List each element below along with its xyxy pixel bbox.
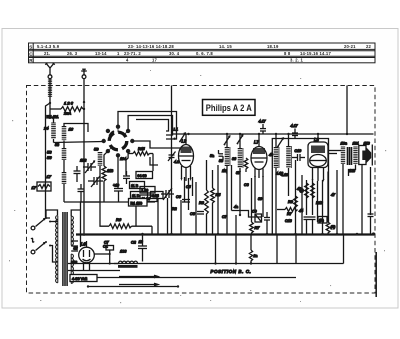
svg-text:22: 22 bbox=[366, 44, 372, 49]
svg-text:04 30: 04 30 bbox=[138, 174, 147, 178]
antenna symbol bbox=[45, 63, 55, 75]
tube socket pins bbox=[102, 125, 135, 158]
wire drops to bus bbox=[181, 160, 371, 235]
node bottom4 right bbox=[177, 285, 179, 287]
transformer core bbox=[63, 212, 67, 286]
wire drop from box 435 bbox=[157, 199, 159, 235]
capacitor bottom right 2 bbox=[310, 217, 316, 234]
svg-text:3. 2. 1: 3. 2. 1 bbox=[290, 58, 304, 63]
tube socket U1 outer arcs bbox=[109, 132, 127, 150]
svg-text:23-71. 2: 23-71. 2 bbox=[124, 51, 141, 56]
scan speckles bbox=[9, 70, 386, 303]
value box 435 bbox=[151, 192, 164, 199]
capacitor C9 bbox=[252, 210, 262, 223]
svg-text:1N: 1N bbox=[222, 169, 227, 173]
node dots on top bus bbox=[187, 133, 348, 135]
svg-text:C5: C5 bbox=[186, 185, 191, 189]
svg-text:113: 113 bbox=[364, 141, 371, 145]
svg-text:101: 101 bbox=[353, 141, 359, 145]
dashed chassis border bbox=[27, 86, 376, 294]
capacitor C14 below socket bbox=[114, 188, 123, 190]
tube leg arrowheads bbox=[181, 176, 325, 182]
coil L33 bbox=[62, 148, 67, 160]
wire step AVC bbox=[232, 211, 262, 218]
svg-text:104: 104 bbox=[120, 157, 126, 161]
value box 11D bbox=[131, 192, 148, 199]
wire vert below bus 4 bbox=[295, 235, 297, 264]
svg-text:C13: C13 bbox=[285, 219, 292, 223]
svg-text:26. 3: 26. 3 bbox=[67, 51, 78, 56]
resistor box 17 bbox=[37, 182, 51, 191]
wire left branch down bbox=[46, 103, 51, 218]
svg-text:36: 36 bbox=[232, 157, 236, 161]
wire step vertical bbox=[231, 165, 233, 211]
switch contact S2 bbox=[237, 135, 243, 144]
node antenna junction bbox=[49, 102, 51, 104]
transformer secondary top bbox=[71, 216, 73, 245]
switch contact S5 bbox=[179, 133, 185, 142]
svg-text:1 2 6: 1 2 6 bbox=[64, 101, 74, 106]
svg-text:14-15.16 14.17: 14-15.16 14.17 bbox=[300, 51, 331, 56]
svg-text:4-30 Volt: 4-30 Volt bbox=[72, 277, 88, 281]
svg-text:53: 53 bbox=[55, 143, 59, 147]
svg-text:23- 14-13-16 14-18.28: 23- 14-13-16 14-18.28 bbox=[128, 44, 174, 49]
capacitor left small 1 bbox=[74, 166, 81, 182]
wire L3 to transformer 2 bbox=[329, 153, 338, 155]
switch arm A bbox=[36, 217, 52, 227]
svg-text:21.: 21. bbox=[44, 51, 50, 56]
resistor R11 bbox=[311, 183, 315, 198]
svg-text:1 10: 1 10 bbox=[142, 189, 149, 193]
electrolytic blob bbox=[299, 188, 304, 193]
capacitor C17 on bus bbox=[260, 124, 266, 134]
antenna terminal bbox=[48, 75, 52, 79]
capacitor C17b on box top bbox=[291, 124, 299, 139]
wire vert below bus 3 bbox=[250, 234, 252, 250]
svg-text:2a: 2a bbox=[253, 254, 258, 258]
mains squiggle bbox=[31, 238, 34, 242]
output stage screen box bbox=[272, 139, 328, 235]
PARTS TABLE bbox=[29, 43, 376, 63]
svg-text:4.10: 4.10 bbox=[276, 172, 283, 176]
svg-text:14. 15: 14. 15 bbox=[219, 44, 232, 49]
wire nested loop 3 bbox=[136, 120, 169, 132]
resistor R5 bbox=[211, 188, 215, 208]
wire step zigzag R13 bbox=[277, 208, 298, 217]
inner box left corner bbox=[81, 202, 156, 247]
svg-text:56: 56 bbox=[47, 155, 52, 160]
svg-text:18.19: 18.19 bbox=[267, 44, 279, 49]
svg-text:4a: 4a bbox=[234, 205, 238, 209]
dial arrow 1 bbox=[119, 275, 158, 277]
capacitor C6 bbox=[176, 195, 190, 202]
wire jog to coil bbox=[50, 116, 54, 123]
svg-text:11 B: 11 B bbox=[131, 184, 139, 188]
svg-text:44: 44 bbox=[299, 209, 303, 213]
mains switch terminal A bbox=[31, 226, 35, 230]
svg-text:R2: R2 bbox=[172, 207, 177, 211]
wire bottom 4 bbox=[88, 286, 178, 288]
value box left2 bbox=[140, 195, 157, 202]
svg-text:30. 4: 30. 4 bbox=[169, 51, 180, 56]
wire switch A to transformer bbox=[50, 221, 58, 223]
svg-text:4.1: 4.1 bbox=[174, 160, 179, 164]
svg-text:KH 421: KH 421 bbox=[47, 115, 59, 119]
node nested loop joint bbox=[173, 138, 175, 140]
svg-text:C3: C3 bbox=[244, 183, 249, 187]
svg-text:4.17: 4.17 bbox=[291, 124, 299, 128]
wire left tall vertical bbox=[171, 86, 173, 235]
wire L16 bottom right bbox=[63, 160, 65, 172]
wire socket lower-right down bbox=[126, 151, 128, 175]
svg-text:C9: C9 bbox=[252, 210, 257, 214]
resistor R6 on AVC line bbox=[100, 202, 152, 235]
node bus right end bbox=[372, 232, 375, 235]
earth terminal symbol bbox=[81, 69, 87, 74]
wire bottom long 1 bbox=[68, 263, 344, 265]
wire top bus B+ bbox=[172, 133, 374, 135]
wire vert below bus 5 bbox=[276, 234, 278, 264]
wire main ground bus bbox=[76, 233, 374, 235]
resistor R9 bbox=[294, 196, 298, 207]
dial arrow 2 bbox=[119, 283, 158, 285]
battery box 4-30 VOLT bbox=[70, 275, 97, 282]
svg-text:+10: +10 bbox=[71, 261, 77, 265]
wire left y202 link bbox=[64, 201, 100, 203]
resistor right small bbox=[326, 222, 330, 234]
value box left1 bbox=[140, 187, 155, 194]
capacitor left small 2 bbox=[78, 184, 85, 202]
svg-text:17: 17 bbox=[47, 174, 52, 179]
svg-text:R12: R12 bbox=[316, 201, 323, 205]
svg-text:+10: +10 bbox=[113, 184, 119, 188]
wire socket to L2 grid bbox=[132, 141, 180, 148]
variable capacitor 113 bbox=[83, 161, 96, 173]
capacitor C8 bbox=[190, 212, 204, 217]
svg-text:13b: 13b bbox=[349, 169, 355, 173]
svg-text:(R): (R) bbox=[319, 219, 324, 223]
svg-text:Philips A 2 A: Philips A 2 A bbox=[206, 102, 252, 113]
output tube L3 bbox=[308, 134, 328, 181]
resistor S26 bbox=[61, 107, 83, 112]
wire link y109 bbox=[50, 108, 61, 110]
svg-text:8 8: 8 8 bbox=[284, 51, 291, 56]
transformer taps bbox=[71, 241, 78, 251]
wire vert below bus 1 bbox=[215, 234, 217, 264]
resistor R3 bbox=[205, 190, 209, 216]
svg-text:R1 150: R1 150 bbox=[131, 201, 143, 205]
output transformer 13a bbox=[341, 141, 356, 234]
coil L14 primary bbox=[51, 123, 56, 140]
svg-text:R15: R15 bbox=[138, 147, 145, 151]
svg-text:20-21: 20-21 bbox=[344, 44, 356, 49]
value box 11B bbox=[130, 182, 145, 189]
svg-text:13a: 13a bbox=[341, 141, 347, 145]
wire bottom 3 bbox=[96, 277, 296, 279]
wire drop from C4 trimmer bbox=[167, 198, 169, 234]
IF coil 2a bbox=[276, 134, 279, 234]
IF coil 1a bbox=[227, 134, 230, 234]
coil on antenna lead bbox=[48, 80, 52, 98]
wire nested loop 1 bbox=[118, 112, 177, 140]
value box R1 bbox=[129, 199, 148, 207]
wire socket pin stubs bbox=[110, 128, 127, 150]
wire primary top to switch bbox=[46, 210, 58, 218]
capacitor C15 bbox=[123, 171, 130, 184]
wire socket left feed bbox=[54, 142, 104, 143]
resistor R15 bbox=[129, 147, 154, 171]
wire R2 down bbox=[103, 181, 105, 202]
svg-text:53: 53 bbox=[47, 150, 52, 155]
wire antenna column down bbox=[63, 141, 65, 149]
IF coil 1b bbox=[240, 134, 243, 215]
mains switch terminal B bbox=[31, 250, 35, 254]
svg-text:L6: L6 bbox=[81, 242, 86, 247]
svg-text:17: 17 bbox=[32, 185, 37, 190]
speaker bbox=[353, 141, 373, 165]
wire L3 to transformer bbox=[329, 150, 342, 152]
capacitor C9b bbox=[264, 212, 270, 234]
rectifier tube L6 bbox=[79, 241, 95, 271]
switch arm B bbox=[36, 241, 52, 251]
svg-text:4.17: 4.17 bbox=[259, 120, 267, 124]
svg-text:L1: L1 bbox=[174, 127, 178, 132]
wire bottom 2 bbox=[68, 270, 120, 272]
earth terminal bbox=[82, 75, 86, 79]
tube L2 bbox=[179, 134, 194, 181]
wire antenna down bbox=[49, 79, 51, 119]
wire secondary top up bbox=[71, 210, 80, 216]
wire below L14 bbox=[53, 139, 55, 143]
node bottom4 left bbox=[87, 285, 89, 287]
transformer secondary bottom bbox=[71, 254, 73, 283]
value box right bbox=[318, 217, 327, 224]
svg-text:11B: 11B bbox=[107, 169, 114, 173]
svg-text:2mA: 2mA bbox=[63, 112, 72, 116]
wire antenna col into switch area bbox=[46, 217, 50, 219]
svg-text:112: 112 bbox=[80, 158, 87, 163]
wire osc coil down bbox=[99, 166, 101, 202]
svg-text:R6: R6 bbox=[116, 217, 122, 222]
border corner solid segment bbox=[375, 252, 377, 297]
capacitor C10 bbox=[292, 149, 305, 161]
wire socket bottom down bbox=[117, 155, 119, 188]
table letter column bbox=[32, 43, 34, 63]
svg-text:0. 6. 7.8: 0. 6. 7.8 bbox=[196, 51, 213, 56]
wire to earth lead bbox=[83, 108, 84, 110]
oscillator coil 59 bbox=[98, 152, 103, 166]
svg-text:59: 59 bbox=[94, 147, 99, 152]
switch contact S4 bbox=[277, 138, 283, 147]
inner box right corner bbox=[343, 234, 345, 264]
wire right tall vertical bbox=[346, 86, 348, 135]
switch contact S1 bbox=[224, 136, 230, 145]
svg-text:17: 17 bbox=[152, 58, 158, 63]
svg-text:POSITION B. C.: POSITION B. C. bbox=[211, 269, 252, 274]
svg-text:11 D: 11 D bbox=[132, 194, 140, 198]
resistor R7 bbox=[250, 222, 254, 234]
wire mid link bbox=[150, 157, 158, 165]
tube L7 bbox=[251, 134, 267, 178]
svg-text:30: 30 bbox=[258, 197, 262, 201]
svg-text:(R): (R) bbox=[331, 225, 336, 229]
svg-text:S: S bbox=[29, 44, 32, 49]
resistor R2 vertical bbox=[102, 166, 106, 181]
trimmer C4 bbox=[161, 188, 174, 200]
wire coil links bbox=[64, 124, 88, 133]
table frame bbox=[29, 43, 376, 63]
trimmer capacitor S18 bbox=[88, 176, 103, 187]
socket key notch bbox=[110, 131, 115, 136]
capacitor C16 right bbox=[368, 214, 374, 234]
coil L17 lower bbox=[62, 172, 67, 184]
coil L16 secondary bbox=[62, 126, 67, 141]
resistor box R8 bbox=[94, 241, 113, 265]
resistor mid small bbox=[244, 158, 248, 172]
table row lines bbox=[29, 48, 376, 50]
wire earth down bbox=[83, 79, 85, 235]
svg-text:C10: C10 bbox=[295, 149, 302, 153]
svg-text:133: 133 bbox=[120, 250, 127, 254]
svg-text:5a: 5a bbox=[210, 154, 214, 158]
wire vert below bus 2 bbox=[235, 215, 237, 264]
power transformer T1 primary bbox=[56, 216, 58, 283]
IF coil 2b bbox=[289, 134, 292, 196]
wire nested loop 2 bbox=[128, 116, 172, 136]
svg-text:5.1-4.3 5.9: 5.1-4.3 5.9 bbox=[37, 44, 60, 49]
trimmer on left tall vertical bbox=[168, 152, 176, 162]
node dots on bus bbox=[83, 214, 359, 265]
resistor R10 bbox=[305, 183, 309, 198]
svg-text:16: 16 bbox=[69, 127, 74, 132]
wire switch B to transformer bbox=[50, 246, 58, 263]
Philips A 2 A label box bbox=[203, 100, 256, 116]
capacitor C2 bbox=[138, 234, 147, 262]
choke 133 bbox=[114, 250, 138, 268]
wire coil L17 tail bbox=[63, 184, 65, 202]
capacitor bottom right 1 bbox=[304, 217, 310, 234]
wire drop from box 11D bbox=[135, 206, 137, 226]
capacitor before IF coil bbox=[219, 150, 224, 160]
value box 04 30 bbox=[136, 172, 153, 179]
wire socket lower-left bbox=[104, 151, 108, 166]
svg-text:52: 52 bbox=[74, 247, 78, 251]
svg-text:24: 24 bbox=[43, 126, 49, 131]
svg-text:13-14: 13-14 bbox=[95, 51, 107, 56]
